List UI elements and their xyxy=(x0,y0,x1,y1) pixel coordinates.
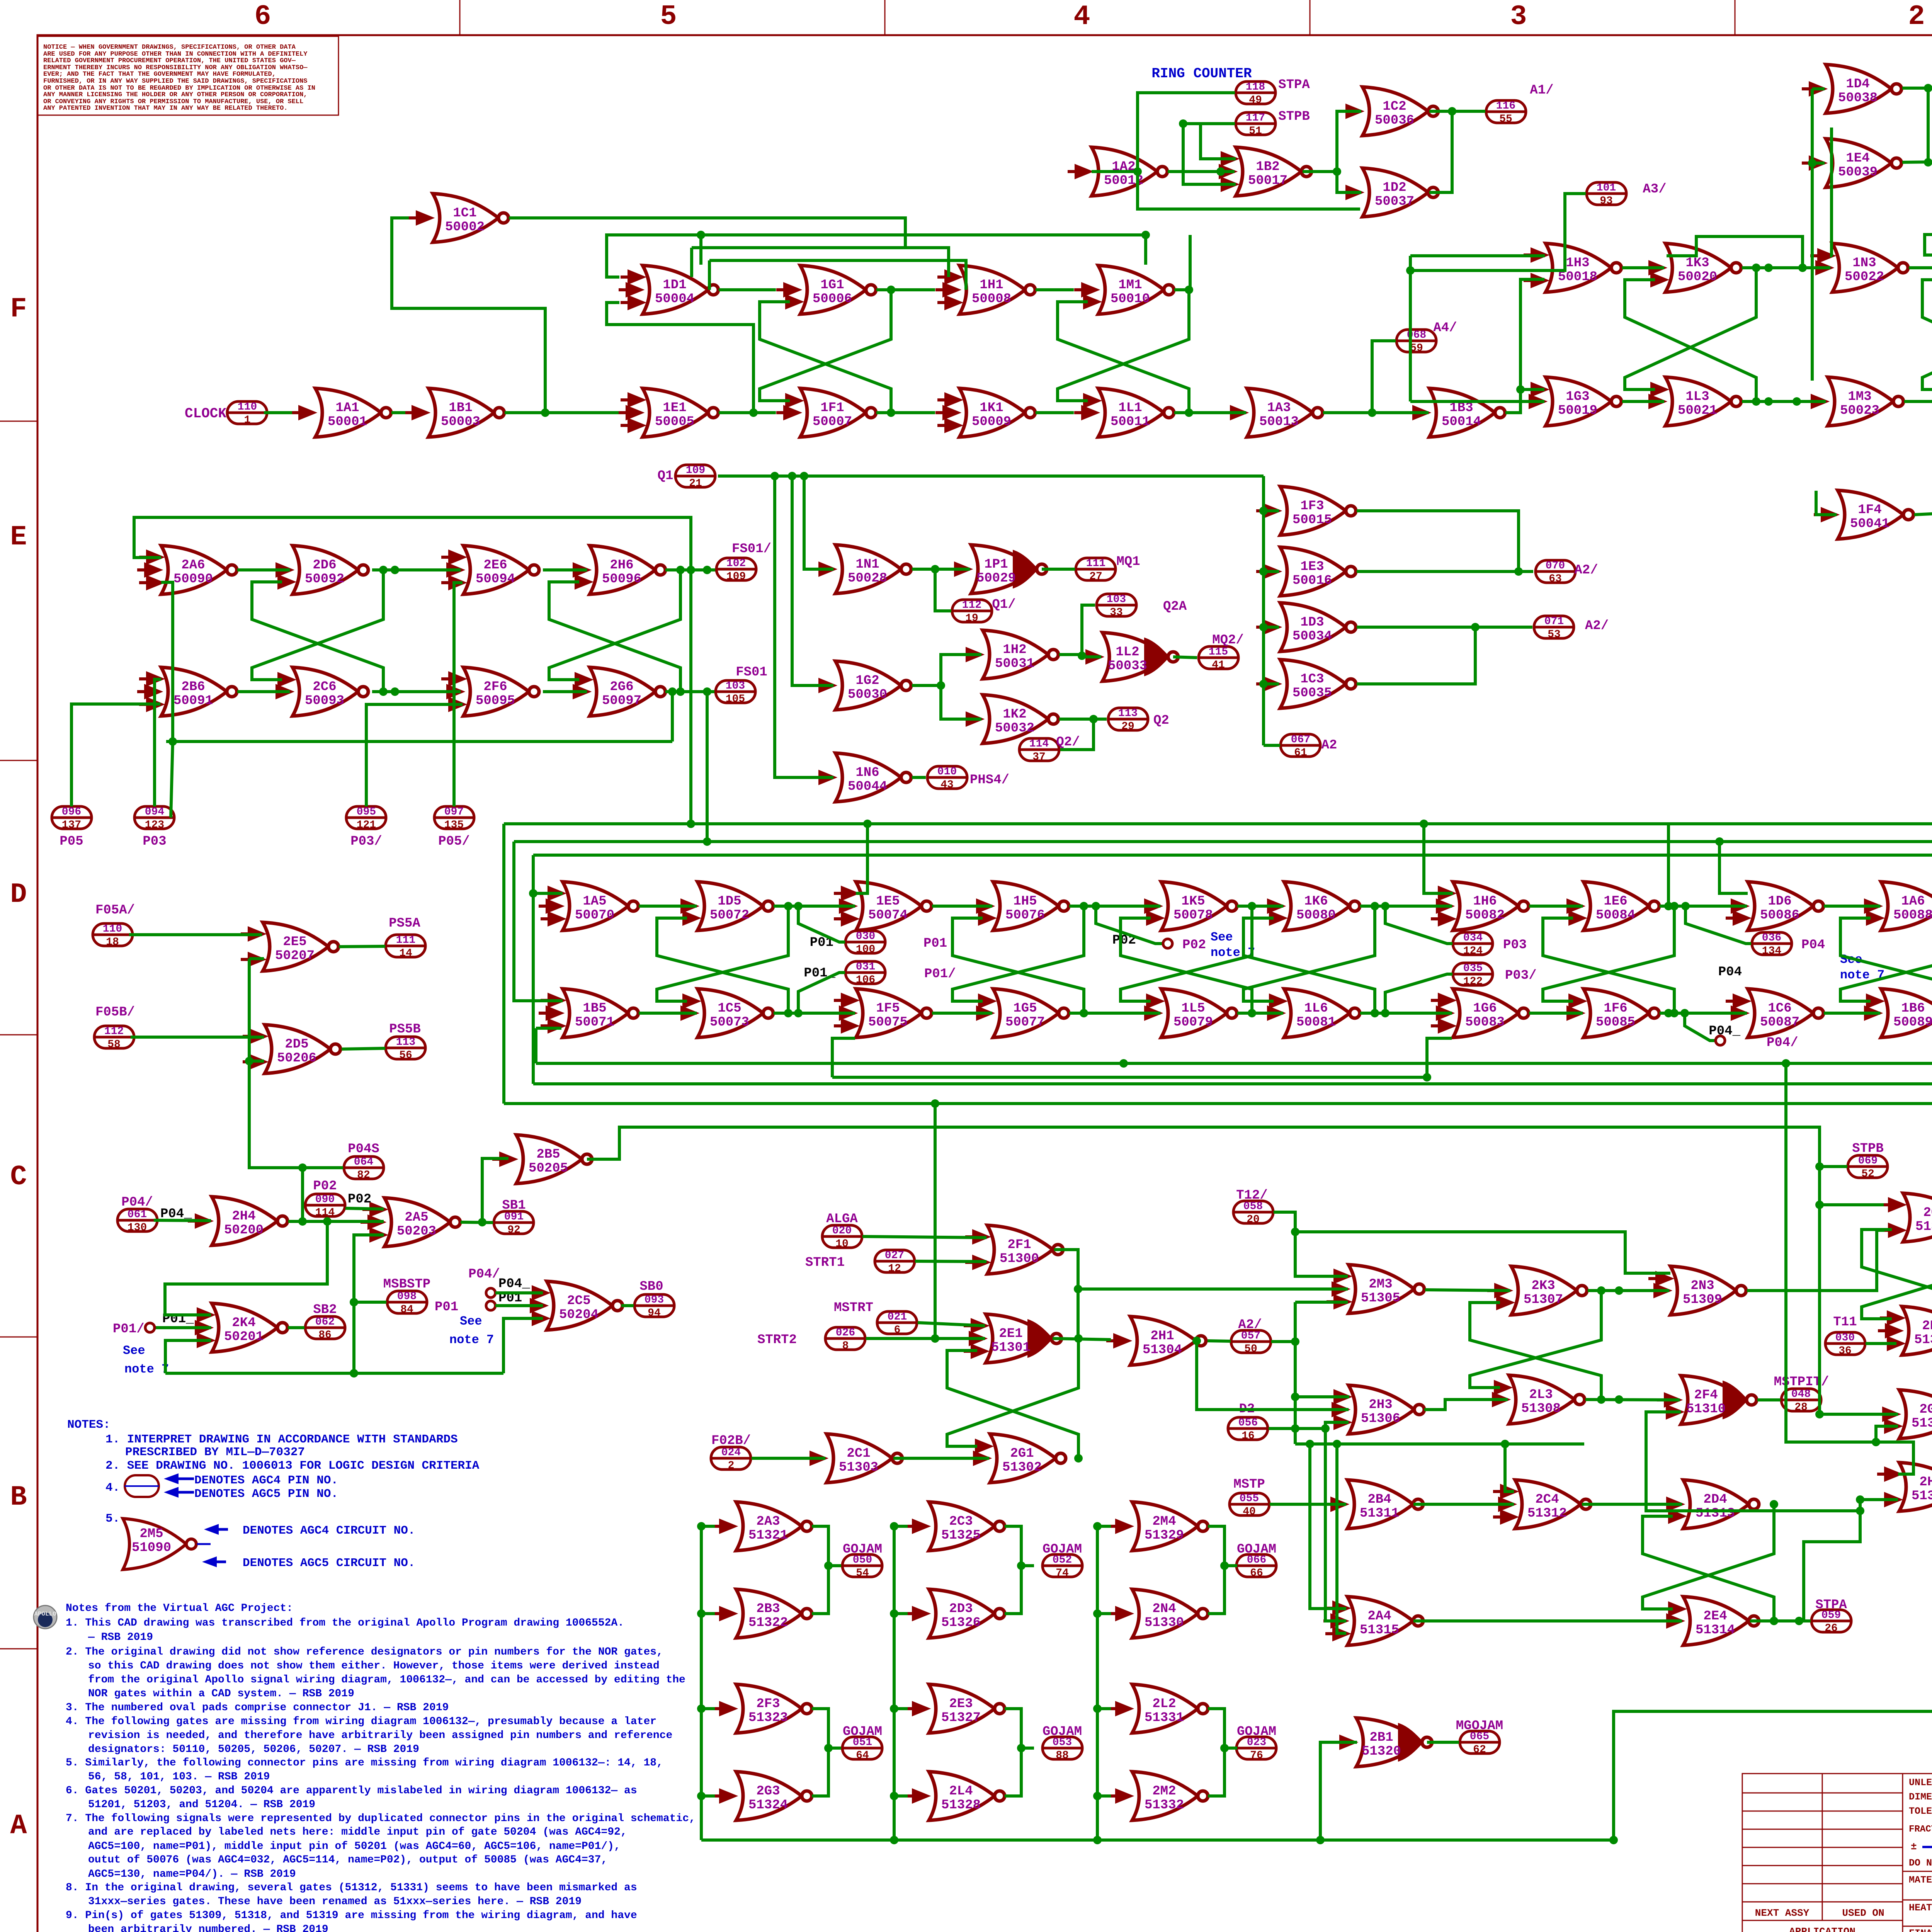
svg-text:41: 41 xyxy=(1212,659,1225,671)
svg-text:86: 86 xyxy=(318,1329,332,1341)
svg-text:1C2: 1C2 xyxy=(1383,99,1406,114)
svg-text:2H3: 2H3 xyxy=(1369,1398,1392,1412)
svg-text:50015: 50015 xyxy=(1293,513,1332,527)
svg-text:51309: 51309 xyxy=(1683,1293,1722,1307)
svg-text:2E1: 2E1 xyxy=(999,1327,1022,1341)
svg-text:and are replaced by labeled ne: and are replaced by labeled nets here: m… xyxy=(88,1826,627,1838)
svg-text:50077: 50077 xyxy=(1005,1015,1045,1030)
svg-text:SB2: SB2 xyxy=(313,1303,337,1317)
svg-text:from the original Apollo signa: from the original Apollo signal wiring d… xyxy=(88,1674,685,1686)
svg-text:1D1: 1D1 xyxy=(663,278,686,293)
svg-text:FINAL FINISH: FINAL FINISH xyxy=(1909,1928,1932,1932)
svg-text:111: 111 xyxy=(1086,558,1105,570)
svg-text:GOJAM: GOJAM xyxy=(1237,1542,1276,1557)
svg-text:50007: 50007 xyxy=(813,415,852,429)
svg-text:061: 061 xyxy=(128,1209,147,1221)
svg-text:50017: 50017 xyxy=(1248,173,1287,188)
svg-text:1B2: 1B2 xyxy=(1256,160,1279,174)
svg-text:revision is needed, and theref: revision is needed, and therefore have a… xyxy=(88,1730,672,1742)
svg-text:MATERIAL: MATERIAL xyxy=(1909,1874,1932,1886)
svg-text:50032: 50032 xyxy=(995,721,1034,736)
svg-text:50091: 50091 xyxy=(173,694,213,708)
svg-text:50080: 50080 xyxy=(1296,908,1336,923)
svg-text:51318: 51318 xyxy=(1912,1416,1932,1431)
svg-text:106: 106 xyxy=(856,974,875,986)
svg-text:AGC5=100, name=P01), middle in: AGC5=100, name=P01), middle input pin of… xyxy=(88,1840,621,1852)
svg-text:EVER; AND THE FACT THAT THE GO: EVER; AND THE FACT THAT THE GOVERNMENT M… xyxy=(43,71,276,78)
svg-text:±: ± xyxy=(1911,1841,1917,1852)
svg-text:F05B/: F05B/ xyxy=(95,1005,135,1020)
svg-text:50088: 50088 xyxy=(1893,908,1932,923)
svg-text:50008: 50008 xyxy=(972,292,1011,306)
svg-text:030: 030 xyxy=(856,930,875,942)
svg-text:130: 130 xyxy=(128,1222,147,1234)
svg-text:50085: 50085 xyxy=(1596,1015,1635,1030)
svg-text:51311: 51311 xyxy=(1360,1506,1399,1521)
svg-text:50016: 50016 xyxy=(1293,573,1332,588)
svg-text:50022: 50022 xyxy=(1845,270,1884,284)
svg-text:MQ1: MQ1 xyxy=(1116,554,1140,569)
svg-text:51306: 51306 xyxy=(1361,1412,1400,1426)
svg-text:135: 135 xyxy=(444,819,464,831)
svg-text:50037: 50037 xyxy=(1375,194,1414,209)
svg-text:1N6: 1N6 xyxy=(855,765,879,780)
svg-text:2C6: 2C6 xyxy=(313,680,336,694)
svg-text:P02: P02 xyxy=(1182,938,1206,952)
svg-text:102: 102 xyxy=(726,558,746,570)
svg-text:50205: 50205 xyxy=(529,1161,568,1176)
svg-text:1N1: 1N1 xyxy=(855,557,879,572)
svg-text:TOLERANCES ON: TOLERANCES ON xyxy=(1909,1806,1932,1817)
svg-text:50031: 50031 xyxy=(995,656,1034,671)
svg-text:2: 2 xyxy=(728,1460,735,1472)
svg-text:2D6: 2D6 xyxy=(313,558,336,573)
svg-text:MSTP: MSTP xyxy=(1233,1477,1265,1492)
svg-text:P02: P02 xyxy=(313,1179,337,1194)
svg-text:111: 111 xyxy=(396,934,415,946)
svg-text:2F4: 2F4 xyxy=(1694,1388,1718,1403)
svg-text:1E4: 1E4 xyxy=(1846,151,1869,166)
svg-text:105: 105 xyxy=(726,693,745,705)
svg-text:RING COUNTER: RING COUNTER xyxy=(1151,66,1252,82)
svg-text:2G3: 2G3 xyxy=(756,1784,780,1799)
svg-text:123: 123 xyxy=(145,819,164,831)
svg-text:P03: P03 xyxy=(1503,938,1527,952)
svg-text:2C2: 2C2 xyxy=(1923,1206,1932,1220)
svg-text:070: 070 xyxy=(1546,560,1565,572)
svg-text:DENOTES AGC5 CIRCUIT NO.: DENOTES AGC5 CIRCUIT NO. xyxy=(243,1556,415,1570)
svg-text:51312: 51312 xyxy=(1527,1506,1567,1521)
svg-text:53: 53 xyxy=(1548,629,1561,641)
svg-text:071: 071 xyxy=(1544,616,1564,628)
svg-text:16: 16 xyxy=(1242,1430,1255,1442)
svg-text:51321: 51321 xyxy=(748,1528,788,1543)
svg-text:P04/: P04/ xyxy=(121,1195,153,1210)
svg-text:DIMENSIONS ARE IN INCHES: DIMENSIONS ARE IN INCHES xyxy=(1909,1791,1932,1803)
svg-text:NOTES:: NOTES: xyxy=(67,1418,111,1432)
svg-text:UNLESS OTHERWISE SPECIFIED: UNLESS OTHERWISE SPECIFIED xyxy=(1909,1777,1932,1788)
svg-text:93: 93 xyxy=(1600,195,1613,207)
svg-text:2D5: 2D5 xyxy=(285,1037,308,1052)
svg-text:note 7: note 7 xyxy=(124,1362,169,1376)
svg-text:A: A xyxy=(10,1810,27,1842)
svg-text:2H4: 2H4 xyxy=(232,1209,255,1224)
svg-text:50207: 50207 xyxy=(275,949,315,963)
svg-text:122: 122 xyxy=(1463,976,1483,988)
svg-text:50200: 50200 xyxy=(224,1223,264,1238)
svg-text:036: 036 xyxy=(1762,932,1781,944)
svg-text:2M4: 2M4 xyxy=(1152,1514,1176,1529)
svg-text:1F1: 1F1 xyxy=(820,401,844,415)
svg-text:030: 030 xyxy=(1835,1332,1855,1344)
svg-text:048: 048 xyxy=(1791,1388,1811,1400)
svg-text:113: 113 xyxy=(1118,707,1138,719)
svg-text:P01_: P01_ xyxy=(804,966,835,981)
svg-text:50041: 50041 xyxy=(1850,517,1889,531)
svg-text:51308: 51308 xyxy=(1521,1401,1561,1416)
svg-text:RELATED GOVERNMENT PROCUREMENT: RELATED GOVERNMENT PROCUREMENT OPERATION… xyxy=(43,57,296,65)
svg-text:2G1: 2G1 xyxy=(1010,1446,1034,1461)
svg-text:P03/: P03/ xyxy=(1505,968,1537,983)
svg-text:010: 010 xyxy=(937,766,957,778)
svg-text:1. This CAD drawing was transc: 1. This CAD drawing was transcribed from… xyxy=(66,1617,624,1629)
svg-text:GOJAM: GOJAM xyxy=(1237,1725,1276,1739)
svg-text:50033: 50033 xyxy=(1108,659,1147,673)
svg-text:APPLICATION: APPLICATION xyxy=(1789,1926,1855,1932)
svg-text:50020: 50020 xyxy=(1678,270,1717,284)
svg-text:110: 110 xyxy=(238,401,257,413)
svg-text:so this CAD drawing does not s: so this CAD drawing does not show them e… xyxy=(88,1660,660,1672)
svg-text:1F5: 1F5 xyxy=(876,1001,900,1016)
svg-text:designators: 50110, 50205, 502: designators: 50110, 50205, 50206, 50207.… xyxy=(88,1743,419,1755)
svg-text:51330: 51330 xyxy=(1145,1616,1184,1630)
svg-text:035: 035 xyxy=(1463,963,1483,975)
svg-text:Q2: Q2 xyxy=(1153,713,1169,728)
svg-text:50010: 50010 xyxy=(1111,292,1150,306)
svg-text:50023: 50023 xyxy=(1840,403,1879,418)
svg-text:DO NOT SCALE THIS DRAWING: DO NOT SCALE THIS DRAWING xyxy=(1909,1857,1932,1869)
svg-text:P01: P01 xyxy=(923,936,947,951)
svg-text:31xxx—series gates. These hav: 31xxx—series gates. These have been rena… xyxy=(88,1896,582,1908)
svg-text:101: 101 xyxy=(1597,182,1616,194)
svg-text:51331: 51331 xyxy=(1145,1711,1184,1725)
svg-text:1B1: 1B1 xyxy=(449,401,472,415)
svg-text:2C4: 2C4 xyxy=(1535,1492,1559,1507)
svg-text:P02: P02 xyxy=(348,1192,371,1207)
svg-text:— RSB 2019: — RSB 2019 xyxy=(88,1631,153,1643)
svg-text:STRT2: STRT2 xyxy=(757,1333,797,1347)
svg-text:2G2: 2G2 xyxy=(1919,1402,1932,1417)
svg-text:28: 28 xyxy=(1794,1401,1808,1413)
svg-text:FS01: FS01 xyxy=(736,665,767,680)
svg-text:1H6: 1H6 xyxy=(1473,894,1497,909)
svg-text:8: 8 xyxy=(842,1340,849,1352)
svg-text:115: 115 xyxy=(1209,646,1228,658)
svg-text:59: 59 xyxy=(1410,342,1423,354)
svg-text:117: 117 xyxy=(1246,112,1265,124)
svg-text:MGOJAM: MGOJAM xyxy=(1456,1719,1503,1733)
svg-text:92: 92 xyxy=(507,1224,520,1236)
svg-text:Q2/: Q2/ xyxy=(1056,735,1080,750)
svg-text:50039: 50039 xyxy=(1838,165,1878,180)
svg-text:note 7: note 7 xyxy=(449,1333,494,1347)
svg-text:AGC5=130, name=P04/). — RSB 20: AGC5=130, name=P04/). — RSB 2019 xyxy=(88,1868,296,1880)
svg-text:2A4: 2A4 xyxy=(1367,1609,1391,1624)
svg-text:STPA: STPA xyxy=(1815,1598,1847,1612)
svg-text:PS5A: PS5A xyxy=(389,916,420,931)
svg-text:FS01/: FS01/ xyxy=(732,542,771,556)
svg-text:2F6: 2F6 xyxy=(483,680,507,694)
svg-text:Q1/: Q1/ xyxy=(992,597,1015,612)
svg-text:2B3: 2B3 xyxy=(756,1602,780,1616)
svg-text:50203: 50203 xyxy=(397,1224,436,1239)
svg-text:1E3: 1E3 xyxy=(1300,560,1324,574)
svg-text:ANY MANNER LICENSING THE HOLDE: ANY MANNER LICENSING THE HOLDER OR ANY O… xyxy=(43,91,308,99)
svg-text:52: 52 xyxy=(1861,1168,1874,1180)
svg-text:1E6: 1E6 xyxy=(1604,894,1627,909)
svg-text:STPA: STPA xyxy=(1278,78,1310,92)
svg-text:1A6: 1A6 xyxy=(1901,894,1925,909)
svg-text:8. In the original drawing, se: 8. In the original drawing, several gate… xyxy=(66,1882,637,1894)
svg-text:1P1: 1P1 xyxy=(984,557,1008,572)
svg-text:1E1: 1E1 xyxy=(663,401,686,415)
svg-text:103: 103 xyxy=(1107,594,1126,605)
svg-text:50089: 50089 xyxy=(1893,1015,1932,1030)
svg-text:094: 094 xyxy=(145,806,164,818)
svg-text:27: 27 xyxy=(1089,571,1102,583)
svg-text:1. INTERPRET DRAWING IN ACCORD: 1. INTERPRET DRAWING IN ACCORDANCE WITH … xyxy=(105,1433,458,1446)
svg-text:50044: 50044 xyxy=(848,779,887,794)
svg-text:50019: 50019 xyxy=(1558,403,1597,418)
svg-text:1K3: 1K3 xyxy=(1685,256,1709,270)
svg-text:50082: 50082 xyxy=(1465,908,1505,923)
svg-text:51327: 51327 xyxy=(941,1711,981,1725)
svg-text:MSBSTP: MSBSTP xyxy=(383,1277,430,1292)
svg-text:50071: 50071 xyxy=(575,1015,614,1030)
svg-text:090: 090 xyxy=(315,1194,335,1206)
svg-text:50001: 50001 xyxy=(328,415,367,429)
svg-text:50036: 50036 xyxy=(1375,113,1414,128)
svg-text:096: 096 xyxy=(62,806,81,818)
svg-text:093: 093 xyxy=(645,1294,664,1306)
svg-text:51314: 51314 xyxy=(1696,1623,1735,1638)
svg-text:1K1: 1K1 xyxy=(980,401,1003,415)
svg-text:P01: P01 xyxy=(435,1300,458,1315)
svg-text:1F6: 1F6 xyxy=(1604,1001,1627,1016)
svg-text:See: See xyxy=(460,1314,482,1328)
svg-text:1H5: 1H5 xyxy=(1013,894,1037,909)
svg-text:1G5: 1G5 xyxy=(1013,1001,1037,1016)
svg-text:1C6: 1C6 xyxy=(1768,1001,1791,1016)
svg-text:1F3: 1F3 xyxy=(1300,499,1324,514)
svg-text:1L2: 1L2 xyxy=(1116,645,1139,660)
svg-text:50079: 50079 xyxy=(1173,1015,1213,1030)
svg-text:51316: 51316 xyxy=(1915,1219,1932,1234)
svg-text:ALGA: ALGA xyxy=(826,1212,858,1226)
svg-text:outut of 50076 (was AGC4=032,: outut of 50076 (was AGC4=032, AGC5=114, … xyxy=(88,1854,607,1866)
svg-text:37: 37 xyxy=(1032,751,1046,763)
svg-text:88: 88 xyxy=(1056,1750,1069,1762)
svg-text:ANY PATENTED INVENTION THAT MA: ANY PATENTED INVENTION THAT MAY IN ANY W… xyxy=(43,105,288,112)
svg-text:PHS4/: PHS4/ xyxy=(970,773,1009,787)
svg-text:5. Similarly, the following co: 5. Similarly, the following connector pi… xyxy=(66,1757,663,1769)
svg-text:50030: 50030 xyxy=(848,687,887,702)
svg-text:1K5: 1K5 xyxy=(1181,894,1205,909)
svg-text:54: 54 xyxy=(856,1567,869,1579)
svg-text:51302: 51302 xyxy=(1002,1460,1042,1475)
svg-text:51303: 51303 xyxy=(839,1460,878,1475)
svg-text:1B6: 1B6 xyxy=(1901,1001,1925,1016)
svg-text:1H3: 1H3 xyxy=(1566,256,1589,270)
svg-text:MSTRT: MSTRT xyxy=(834,1301,873,1315)
svg-text:021: 021 xyxy=(888,1311,907,1323)
svg-text:1D4: 1D4 xyxy=(1846,77,1869,92)
svg-text:84: 84 xyxy=(400,1304,413,1316)
svg-text:113: 113 xyxy=(396,1036,415,1048)
svg-text:100: 100 xyxy=(856,944,875,956)
svg-text:APOLLO: APOLLO xyxy=(34,1611,56,1617)
svg-text:CLOCK: CLOCK xyxy=(185,406,226,422)
svg-text:50006: 50006 xyxy=(813,292,852,306)
svg-text:024: 024 xyxy=(721,1447,741,1459)
svg-text:50084: 50084 xyxy=(1596,908,1635,923)
svg-text:2L3: 2L3 xyxy=(1529,1388,1553,1402)
svg-text:HEAT TREATMENT: HEAT TREATMENT xyxy=(1909,1902,1932,1913)
svg-text:50038: 50038 xyxy=(1838,91,1878,105)
svg-text:114: 114 xyxy=(315,1207,335,1219)
svg-text:134: 134 xyxy=(1762,945,1781,957)
svg-text:82: 82 xyxy=(357,1169,370,1181)
svg-text:2H6: 2H6 xyxy=(610,558,633,573)
svg-text:51310: 51310 xyxy=(1686,1402,1726,1417)
svg-text:55: 55 xyxy=(1499,113,1512,125)
svg-text:1B5: 1B5 xyxy=(583,1001,606,1016)
svg-text:020: 020 xyxy=(832,1225,852,1237)
svg-text:63: 63 xyxy=(1549,573,1562,585)
svg-text:FURNISHED, OR IN ANY WAY SUPPL: FURNISHED, OR IN ANY WAY SUPPLIED THE SA… xyxy=(43,78,308,85)
svg-text:2. The original drawing did no: 2. The original drawing did not show ref… xyxy=(66,1646,663,1658)
svg-text:64: 64 xyxy=(856,1750,869,1762)
svg-text:50070: 50070 xyxy=(575,908,614,923)
svg-text:4: 4 xyxy=(1073,1,1090,32)
svg-text:2B6: 2B6 xyxy=(181,680,205,694)
svg-text:027: 027 xyxy=(885,1250,904,1262)
svg-text:A3/: A3/ xyxy=(1643,182,1666,197)
svg-text:50: 50 xyxy=(1244,1343,1257,1355)
svg-text:1H1: 1H1 xyxy=(980,278,1003,293)
svg-text:50083: 50083 xyxy=(1465,1015,1505,1030)
svg-text:STPB: STPB xyxy=(1278,109,1310,124)
svg-text:1A5: 1A5 xyxy=(583,894,606,909)
svg-text:1A3: 1A3 xyxy=(1267,401,1291,415)
svg-text:51332: 51332 xyxy=(1145,1798,1184,1813)
svg-text:51305: 51305 xyxy=(1361,1291,1400,1306)
svg-text:See: See xyxy=(1211,930,1233,944)
svg-text:14: 14 xyxy=(399,947,412,959)
svg-text:10: 10 xyxy=(835,1238,849,1250)
svg-text:2A5: 2A5 xyxy=(405,1210,428,1225)
svg-text:1A1: 1A1 xyxy=(335,401,359,415)
svg-text:GOJAM: GOJAM xyxy=(1043,1725,1082,1739)
svg-text:1H2: 1H2 xyxy=(1003,643,1026,657)
svg-text:21: 21 xyxy=(689,478,702,490)
svg-text:P03: P03 xyxy=(143,834,166,849)
svg-text:1D2: 1D2 xyxy=(1383,180,1406,195)
svg-text:FRACTIONS DECIMALS ANGLES: FRACTIONS DECIMALS ANGLES xyxy=(1909,1824,1932,1835)
svg-text:SB1: SB1 xyxy=(502,1198,526,1213)
svg-text:DENOTES AGC5 PIN NO.: DENOTES AGC5 PIN NO. xyxy=(194,1487,338,1501)
svg-text:51090: 51090 xyxy=(132,1541,171,1555)
svg-text:50029: 50029 xyxy=(976,571,1016,586)
svg-text:See: See xyxy=(123,1344,145,1358)
svg-text:GOJAM: GOJAM xyxy=(843,1725,882,1739)
svg-text:66: 66 xyxy=(1250,1567,1263,1579)
svg-text:098: 098 xyxy=(397,1291,417,1303)
svg-text:50093: 50093 xyxy=(305,694,344,708)
svg-text:51329: 51329 xyxy=(1145,1528,1184,1543)
svg-text:2M3: 2M3 xyxy=(1369,1277,1392,1292)
svg-text:P05: P05 xyxy=(60,834,83,849)
svg-text:50092: 50092 xyxy=(305,572,344,587)
svg-text:062: 062 xyxy=(315,1316,335,1328)
svg-text:40: 40 xyxy=(1243,1506,1256,1518)
svg-text:1K6: 1K6 xyxy=(1304,894,1328,909)
svg-text:1: 1 xyxy=(244,414,251,426)
svg-text:118: 118 xyxy=(1246,81,1265,93)
svg-text:50090: 50090 xyxy=(173,572,213,587)
svg-text:50081: 50081 xyxy=(1296,1015,1336,1030)
svg-text:50034: 50034 xyxy=(1293,629,1332,644)
svg-text:1N3: 1N3 xyxy=(1852,256,1876,270)
svg-text:P04/: P04/ xyxy=(1767,1036,1798,1050)
svg-text:3: 3 xyxy=(1510,1,1527,32)
svg-text:2B5: 2B5 xyxy=(536,1147,560,1162)
svg-text:2M5: 2M5 xyxy=(139,1527,163,1541)
svg-text:2A6: 2A6 xyxy=(181,558,205,573)
svg-text:50028: 50028 xyxy=(848,571,887,586)
svg-text:1K2: 1K2 xyxy=(1003,707,1026,722)
svg-text:50076: 50076 xyxy=(1005,908,1045,923)
svg-text:1L6: 1L6 xyxy=(1304,1001,1328,1016)
svg-text:51328: 51328 xyxy=(941,1798,981,1813)
svg-text:034: 034 xyxy=(1463,932,1483,944)
svg-text:P04_: P04_ xyxy=(498,1277,530,1291)
svg-text:2L4: 2L4 xyxy=(949,1784,973,1799)
svg-text:1D6: 1D6 xyxy=(1768,894,1791,909)
svg-text:1F4: 1F4 xyxy=(1858,503,1881,517)
svg-text:STRT1: STRT1 xyxy=(805,1255,845,1270)
svg-text:069: 069 xyxy=(1858,1155,1878,1167)
svg-text:P05/: P05/ xyxy=(438,834,470,849)
svg-text:F02B/: F02B/ xyxy=(711,1434,751,1448)
svg-text:PRESCRIBED BY MIL—D—70327: PRESCRIBED BY MIL—D—70327 xyxy=(125,1446,305,1459)
svg-text:A2/: A2/ xyxy=(1238,1318,1262,1332)
svg-text:50002: 50002 xyxy=(445,220,485,235)
svg-text:NOTICE — WHEN GOVERNMENT DRAWI: NOTICE — WHEN GOVERNMENT DRAWINGS, SPECI… xyxy=(43,44,296,51)
svg-text:33: 33 xyxy=(1110,607,1123,619)
svg-text:6. Gates 50201, 50203, and 502: 6. Gates 50201, 50203, and 50204 are app… xyxy=(66,1785,637,1797)
svg-text:NOR gates within a CAD system.: NOR gates within a CAD system. — RSB 201… xyxy=(88,1688,354,1700)
svg-text:26: 26 xyxy=(1825,1622,1838,1634)
svg-text:P04_: P04_ xyxy=(1709,1024,1740,1039)
svg-text:1L5: 1L5 xyxy=(1181,1001,1205,1016)
svg-text:DENOTES AGC4 PIN NO.: DENOTES AGC4 PIN NO. xyxy=(194,1474,338,1487)
svg-text:50072: 50072 xyxy=(710,908,749,923)
svg-text:026: 026 xyxy=(836,1327,855,1339)
svg-text:1G3: 1G3 xyxy=(1566,389,1589,404)
svg-text:137: 137 xyxy=(62,819,81,831)
svg-text:2G6: 2G6 xyxy=(610,680,633,694)
